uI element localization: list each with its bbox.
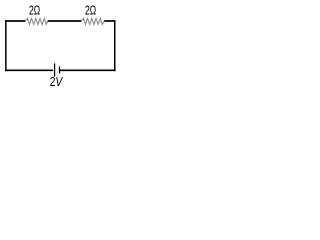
- svg-text:2V: 2V: [50, 75, 64, 89]
- battery V1 long plate (positive): [54, 63, 56, 76]
- wire bottom-left segment: [5, 69, 53, 71]
- wire bottom-right segment: [60, 69, 116, 71]
- wire top-left segment: [5, 20, 25, 22]
- svg-text:2Ω: 2Ω: [29, 3, 40, 17]
- resistor R1 (2 ohm, left): [25, 19, 47, 25]
- svg-text:2Ω: 2Ω: [85, 3, 96, 17]
- battery V1 short plate (negative): [59, 66, 61, 73]
- resistor R2 (2 ohm, right): [81, 19, 104, 25]
- wire right side: [114, 20, 116, 71]
- wire top-middle segment: [48, 20, 82, 22]
- wire left side: [5, 20, 7, 71]
- wire top-right segment: [104, 20, 115, 22]
